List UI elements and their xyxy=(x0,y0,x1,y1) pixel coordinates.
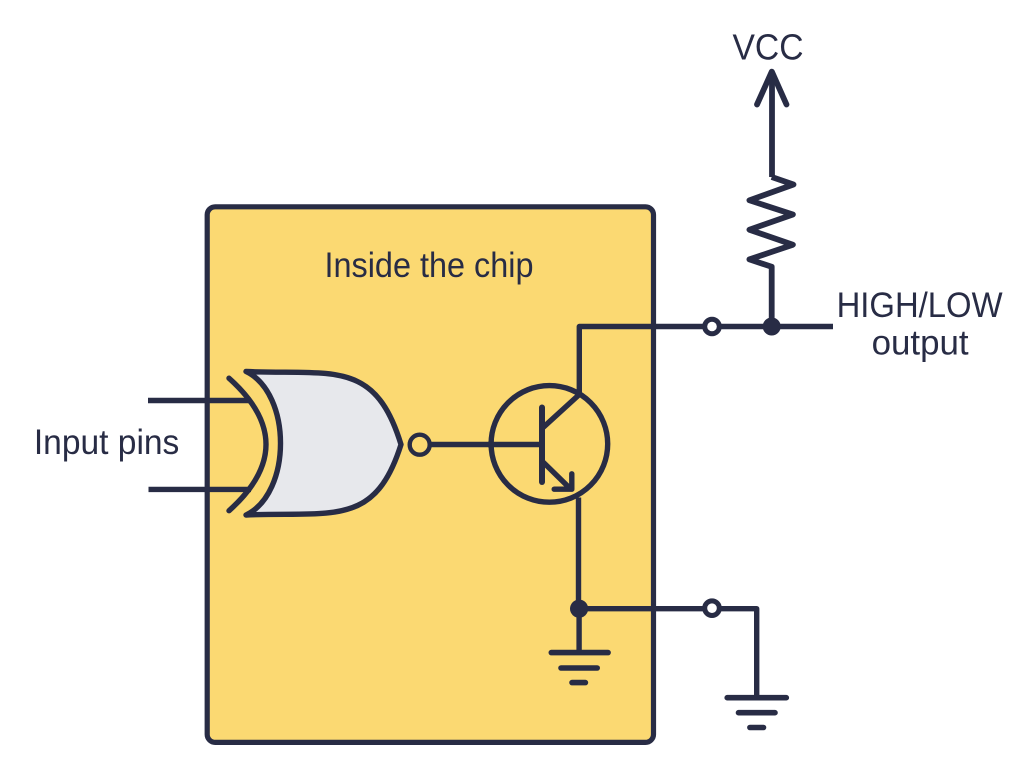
svg-text:VCC: VCC xyxy=(733,27,804,68)
svg-text:HIGH/LOW: HIGH/LOW xyxy=(837,286,1003,325)
svg-text:Input pins: Input pins xyxy=(34,423,180,462)
svg-text:Inside the chip: Inside the chip xyxy=(325,246,534,285)
svg-text:output: output xyxy=(872,324,969,363)
